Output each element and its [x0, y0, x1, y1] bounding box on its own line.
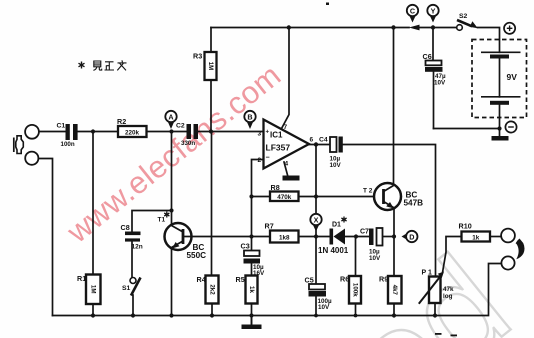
tiny specks [326, 3, 457, 337]
svg-text:D: D [409, 232, 414, 241]
wire op-amp output to C4 [309, 144, 330, 146]
capacitor C8 [121, 223, 143, 251]
wire R6 top [355, 237, 357, 277]
ground battery [492, 136, 509, 141]
svg-text:C2: C2 [176, 123, 185, 130]
svg-text:D1: D1 [332, 222, 341, 229]
node A balloon [165, 111, 176, 129]
wire R7 to D1 [299, 236, 330, 238]
svg-text:470k: 470k [277, 194, 292, 201]
resistor R10 [459, 222, 491, 242]
wire R3 top to +rail [210, 28, 212, 53]
wire C6 bottom [433, 72, 435, 129]
transistor T2 [363, 183, 423, 210]
resistor R9 [379, 275, 402, 304]
wire R1 bottom [92, 304, 94, 316]
svg-text:C6: C6 [423, 52, 432, 61]
wire D1 to C7 [345, 236, 369, 238]
svg-text:T 2: T 2 [363, 188, 373, 195]
input jack tip circle [25, 125, 39, 139]
wire C8 to S1 [131, 242, 133, 278]
svg-text:3: 3 [258, 131, 262, 138]
star see-text note [79, 62, 85, 69]
wire T1 emitter to rail [171, 248, 173, 316]
wire R6 bottom [355, 304, 357, 316]
svg-text:P 1: P 1 [422, 270, 432, 277]
svg-text:547B: 547B [404, 199, 424, 208]
wire node Y down to C6 [432, 28, 434, 61]
capacitor C2 [176, 123, 198, 148]
input jack sleeve circle [25, 152, 38, 165]
resistor R1 [77, 274, 101, 304]
capacitor C3 [241, 242, 266, 278]
output jack plug symbol [516, 239, 525, 260]
svg-text:R1: R1 [77, 274, 86, 283]
wire pin2 node to R8 [252, 196, 271, 198]
svg-text:1k: 1k [472, 234, 480, 241]
wire R8 to T2 base [299, 196, 384, 198]
supply arrow into rail [409, 25, 420, 31]
capacitor C6 [423, 52, 447, 87]
wire P1 wiper to R10 [443, 237, 462, 273]
wire T2 collector to rail [393, 28, 395, 186]
potentiometer P1 [419, 270, 454, 304]
bottom 0V rail [53, 264, 502, 316]
svg-text:R6: R6 [340, 275, 349, 284]
note 见正文 [93, 60, 126, 70]
svg-text:10V: 10V [330, 162, 342, 169]
svg-text:220k: 220k [125, 129, 140, 136]
wire T1 base to R7 node [184, 236, 270, 238]
svg-text:C: C [410, 6, 415, 15]
wire R1 top [92, 132, 94, 275]
wire arrow to S2 [420, 27, 457, 29]
wire R9 bottom [393, 304, 395, 316]
wire R4 bottom [211, 304, 213, 316]
svg-text:C8: C8 [121, 223, 130, 232]
star D1 [341, 217, 346, 223]
diode D1 [318, 222, 349, 256]
svg-text:A: A [168, 112, 173, 121]
resistor R8 [270, 183, 299, 201]
svg-text:10V: 10V [369, 255, 381, 262]
wire node X to C5 [315, 237, 317, 285]
wire R10 to output jack [490, 236, 501, 238]
wire node A down to T1 collector [171, 132, 173, 226]
svg-text:Y: Y [431, 6, 436, 15]
battery 9V dashed box [472, 40, 527, 118]
wire ground stub below rail [251, 316, 253, 325]
capacitor C1 [57, 123, 78, 149]
svg-text:S2: S2 [459, 13, 468, 20]
svg-text:9V: 9V [507, 72, 518, 82]
svg-text:R2: R2 [117, 117, 126, 126]
resistor R4 [197, 275, 219, 304]
svg-text:2k2: 2k2 [209, 284, 216, 295]
wire R3 bottom to signal row [210, 80, 212, 132]
svg-text:B: B [247, 112, 252, 121]
wire C1 to R2 [78, 131, 118, 133]
node X balloon [310, 214, 321, 232]
wire R4 column [211, 132, 213, 276]
switch S1 [122, 278, 141, 296]
wire R5 bottom [251, 304, 253, 325]
svg-text:330n: 330n [181, 140, 195, 147]
svg-text:7: 7 [284, 124, 288, 131]
svg-text:IC1: IC1 [270, 131, 283, 140]
svg-text:C5: C5 [305, 276, 314, 285]
svg-text:T1: T1 [158, 217, 166, 224]
wire C5 bottom [315, 297, 317, 316]
capacitor C5 [305, 276, 333, 312]
node D balloon [402, 231, 418, 242]
svg-text:R9: R9 [379, 275, 388, 284]
battery plus terminal [504, 23, 515, 34]
wire C2 to op-amp pin 3 [198, 131, 264, 133]
svg-text:100n: 100n [61, 141, 75, 148]
svg-text:550C: 550C [187, 251, 207, 260]
battery 9V label [507, 72, 518, 82]
svg-text:−: − [266, 155, 270, 162]
battery cell 2 [481, 97, 521, 105]
wire S1 to rail [132, 295, 134, 316]
output jack tip circle [501, 229, 515, 243]
svg-text:1N 4001: 1N 4001 [318, 246, 349, 255]
svg-text:1M: 1M [207, 62, 214, 71]
wire 0V return C6 to battery [434, 128, 500, 130]
resistor R6 [340, 275, 361, 304]
svg-text:R3: R3 [193, 52, 202, 61]
node B balloon [244, 111, 255, 129]
resistor R2 [117, 117, 147, 137]
svg-text:12n: 12n [132, 244, 143, 251]
svg-text:+: + [266, 130, 270, 136]
wire battery minus to ground [499, 105, 501, 136]
svg-text:47k: 47k [443, 286, 454, 293]
wire P1 bottom [434, 303, 436, 316]
svg-text:C7: C7 [360, 229, 369, 236]
wire C4 to P1 top [343, 145, 436, 277]
resistor R3 [193, 52, 217, 81]
node C balloon [407, 5, 418, 23]
star T1 [164, 212, 169, 218]
svg-text:R10: R10 [459, 222, 472, 231]
battery cell 1 [481, 52, 521, 58]
svg-text:R4: R4 [197, 275, 206, 284]
top +9V rail [211, 27, 409, 29]
svg-text:R7: R7 [265, 222, 274, 231]
op-amp U1 [258, 120, 314, 169]
watermark pink [60, 57, 288, 250]
capacitor C7 [360, 228, 383, 262]
ground bottom rail [242, 325, 262, 330]
svg-text:R8: R8 [271, 183, 280, 192]
wire output node down to node X [315, 145, 317, 237]
wire between battery cells [499, 59, 501, 97]
wire input sleeve down [39, 159, 53, 316]
svg-text:C4: C4 [319, 137, 328, 144]
wire C8 branch horizontal [132, 211, 172, 232]
svg-text:X: X [314, 215, 319, 224]
svg-text:C1: C1 [57, 123, 66, 130]
svg-text:2: 2 [258, 157, 262, 164]
output jack sleeve circle [501, 256, 514, 269]
resistor R5 [236, 275, 258, 304]
wire C3 to R5 [251, 264, 253, 276]
svg-text:S1: S1 [122, 285, 131, 292]
svg-text:1k: 1k [248, 286, 255, 293]
node Y balloon [427, 5, 438, 23]
resistor R7 [265, 222, 299, 243]
svg-text:10V: 10V [318, 304, 330, 311]
svg-text:4k7: 4k7 [391, 285, 398, 296]
wire op-amp pin 2 left [252, 160, 264, 250]
wire S2 to battery + [478, 28, 500, 53]
battery minus terminal [505, 121, 516, 132]
wire op-amp pin 4 to ground [284, 162, 288, 175]
wire T2 emitter column to R9 [393, 208, 395, 277]
wire input top to C1 [39, 131, 66, 133]
watermark gray [320, 227, 534, 338]
svg-text:10V: 10V [434, 80, 446, 87]
capacitor C4 [319, 137, 343, 170]
input jack plug symbol [14, 136, 23, 154]
wire op-amp pin 7 to rail [281, 28, 289, 130]
switch S2 [457, 13, 478, 30]
svg-text:1M: 1M [90, 285, 97, 294]
wire C7 to T2 emitter node [383, 236, 395, 238]
svg-text:log: log [443, 293, 453, 300]
wire R2 to C2 [147, 131, 187, 133]
svg-text:100k: 100k [352, 283, 359, 297]
svg-text:6: 6 [310, 137, 314, 144]
transistor T1 [158, 217, 207, 261]
svg-text:1k8: 1k8 [279, 234, 290, 241]
svg-text:C3: C3 [241, 242, 250, 251]
svg-text:4: 4 [285, 161, 289, 168]
ground op-amp pin4 [283, 176, 300, 181]
svg-text:LF357: LF357 [266, 143, 291, 153]
svg-text:R5: R5 [236, 275, 245, 284]
